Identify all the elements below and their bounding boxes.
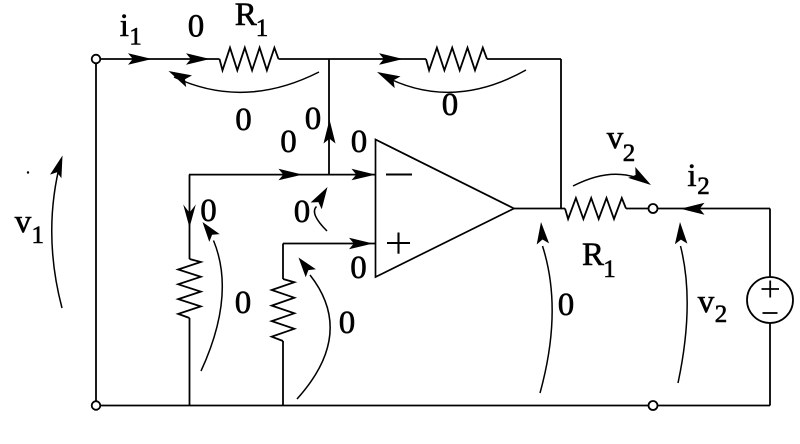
svg-text:v: v xyxy=(607,120,624,156)
svg-text:0: 0 xyxy=(350,250,367,286)
svg-text:2: 2 xyxy=(623,140,636,167)
svg-text:R: R xyxy=(582,237,604,273)
svg-text:0: 0 xyxy=(442,87,459,123)
svg-text:0: 0 xyxy=(305,101,322,137)
svg-text:0: 0 xyxy=(280,124,297,160)
svg-text:v: v xyxy=(698,284,715,320)
svg-text:1: 1 xyxy=(129,24,142,51)
svg-text:i: i xyxy=(120,8,129,44)
svg-text:0: 0 xyxy=(200,193,217,229)
svg-text:i: i xyxy=(687,158,696,194)
svg-text:0: 0 xyxy=(294,194,311,230)
svg-text:1: 1 xyxy=(31,222,44,249)
svg-text:v: v xyxy=(15,204,32,240)
svg-text:0: 0 xyxy=(351,124,368,160)
svg-text:2: 2 xyxy=(697,173,710,200)
svg-text:0: 0 xyxy=(188,9,205,45)
svg-text:0: 0 xyxy=(235,102,252,138)
svg-text:0: 0 xyxy=(339,305,356,341)
svg-text:1: 1 xyxy=(256,15,269,42)
svg-text:1: 1 xyxy=(603,256,616,283)
svg-text:R: R xyxy=(235,0,257,33)
svg-text:0: 0 xyxy=(558,287,575,323)
svg-text:2: 2 xyxy=(715,301,728,328)
svg-text:0: 0 xyxy=(235,285,252,321)
